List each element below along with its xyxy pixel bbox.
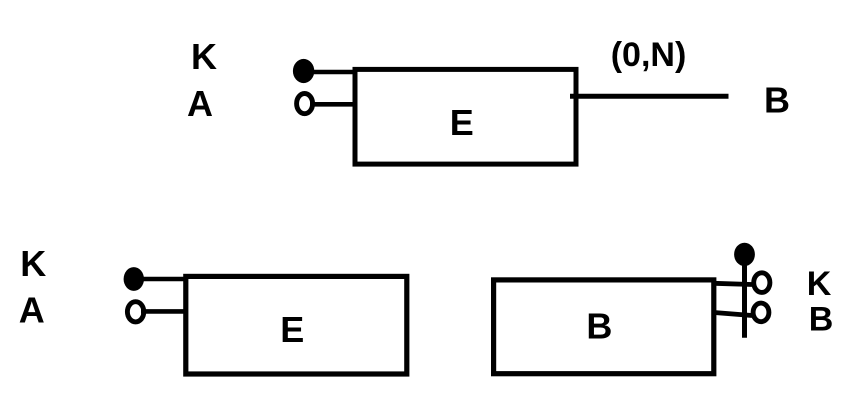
wire from filled dot to entity E (top diagram) [310,70,356,75]
key attribute filled dot (bottom-left diagram) [124,267,144,291]
svg-text:B: B [809,301,834,339]
svg-text:A: A [19,289,45,330]
svg-text:K: K [807,265,832,303]
entity E rectangle (bottom-left diagram) [186,276,407,374]
wire from entity B to open circle K (bottom-right diagram) [714,283,752,284]
svg-text:B: B [764,80,790,121]
vertical key bar (bottom-right diagram) [742,258,747,338]
wire from entity B to open circle B (bottom-right diagram) [714,313,752,316]
attribute open circle (bottom-left diagram) [127,302,143,322]
relationship wire from E to B with cardinality (top diagram) [570,94,729,99]
svg-text:E: E [280,309,304,350]
key filled dot on top of bar (bottom-right diagram) [734,243,755,266]
svg-text:E: E [450,102,474,143]
wire from filled dot to entity E (bottom-left diagram) [140,277,186,282]
svg-text:A: A [187,83,213,124]
open circle for K (bottom-right diagram) [754,273,770,293]
wire from open circle to entity E (top diagram) [310,102,356,107]
attribute open circle (top diagram) [297,94,313,114]
entity B rectangle (bottom-right diagram) [494,280,714,374]
svg-text:K: K [191,36,217,77]
svg-text:(0,N): (0,N) [611,36,687,74]
entity E rectangle (top diagram) [355,69,576,164]
open circle for B (bottom-right diagram) [753,303,769,322]
key attribute filled dot (top diagram) [293,59,314,83]
svg-text:K: K [20,243,46,284]
wire from open circle to entity E (bottom-left diagram) [141,309,186,314]
svg-text:B: B [586,306,612,347]
